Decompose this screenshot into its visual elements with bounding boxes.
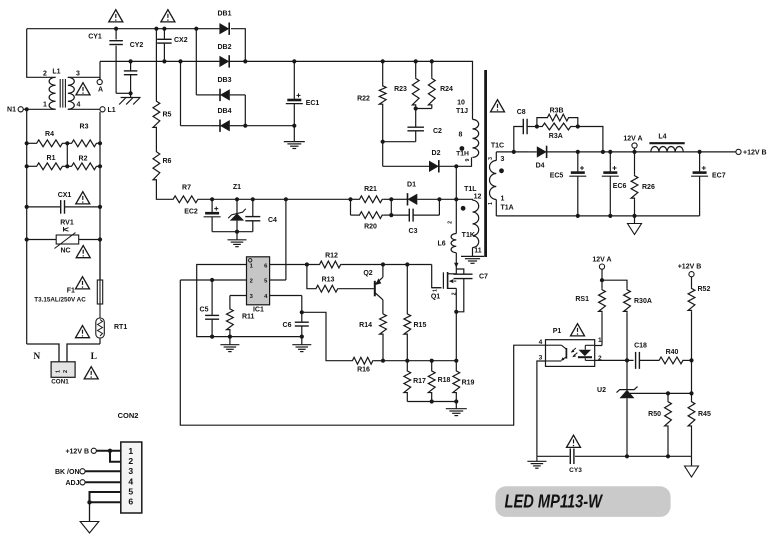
svg-text:N1: N1 (7, 107, 16, 114)
resistor R15 (404, 265, 411, 363)
label pin1 P1 (598, 337, 602, 344)
label pin4 P1 (539, 339, 543, 346)
svg-text:2: 2 (128, 456, 133, 466)
label R1 (47, 155, 56, 162)
label N1 (7, 107, 16, 114)
capacitor CY2 (124, 59, 138, 97)
resistor R5 (153, 27, 160, 129)
label R23 (394, 86, 407, 93)
label R50 (648, 411, 661, 418)
wire pin4 branch to R16 (300, 310, 352, 361)
label T1A (501, 205, 514, 212)
label pin11 (474, 248, 482, 255)
wire pin4 line (270, 296, 302, 323)
svg-text:ADJ: ADJ (65, 480, 79, 487)
svg-text:T3.15AL/250V AC: T3.15AL/250V AC (34, 297, 86, 304)
label R11 (242, 314, 255, 321)
capacitor EC2 (204, 197, 221, 232)
label pin1 sec (501, 195, 505, 202)
label R45 (698, 411, 711, 418)
resistor R13 (315, 285, 374, 292)
svg-text:R23: R23 (394, 86, 407, 93)
wire L1 pin3 to bus2 (68, 61, 100, 77)
diode DB2 (217, 44, 231, 68)
capacitor C5 (205, 278, 219, 339)
svg-text:R52: R52 (698, 286, 711, 293)
capacitor C4 (245, 197, 260, 232)
ic IC1 (247, 257, 270, 305)
svg-text:RT1: RT1 (114, 324, 127, 331)
optocoupler phototransistor (546, 345, 567, 361)
svg-text:4: 4 (77, 102, 81, 109)
wire main line to pin5 (284, 197, 288, 280)
label D1 (407, 182, 416, 189)
resistor R52 (688, 287, 695, 360)
label C5 (200, 307, 209, 314)
svg-text:DB4: DB4 (217, 108, 231, 115)
wire N rail (26, 109, 28, 344)
svg-text:2: 2 (43, 71, 47, 78)
capacitor C3 (391, 197, 441, 221)
wire pin6 line (270, 262, 319, 266)
label CX2 (174, 37, 188, 44)
label Q2 (363, 270, 372, 277)
node +12V B top (736, 149, 767, 156)
label fuse rating (34, 297, 86, 304)
capacitor C7 (454, 269, 473, 314)
label T1K (462, 232, 475, 239)
label pin1 L1 (43, 102, 47, 109)
label CY1 (88, 34, 102, 41)
resistor R23 (412, 59, 419, 106)
svg-text:EC1: EC1 (306, 100, 320, 107)
wire mid junction (66, 143, 68, 166)
svg-text:12V A: 12V A (623, 135, 642, 142)
svg-text:9: 9 (465, 158, 471, 161)
svg-text:DB1: DB1 (217, 11, 231, 18)
label EC7 (712, 172, 726, 179)
svg-text:CY2: CY2 (130, 42, 144, 49)
wire bus2 to DB4 (178, 59, 211, 125)
wire output rail (576, 150, 736, 154)
wire CON2 pin5 (90, 492, 121, 502)
wire IC ground rail (212, 336, 302, 338)
label R30A (634, 298, 652, 305)
label IC1 pin3 (250, 294, 254, 300)
wire D1 node to T1L (439, 198, 456, 200)
svg-text:EC2: EC2 (184, 209, 198, 216)
label CON1 (51, 379, 69, 386)
wire D2 node to T1H (456, 157, 471, 166)
resistor R11 (227, 296, 234, 339)
label R24 (440, 86, 453, 93)
ground below T1K (461, 256, 484, 263)
wire Q1 source down (455, 312, 457, 361)
label CON2 pin3 (128, 466, 133, 476)
svg-text:R26: R26 (642, 184, 655, 191)
svg-text:1: 1 (56, 370, 62, 373)
label RV1 (60, 220, 74, 227)
inductor L1 right winding (68, 77, 75, 109)
svg-text:2: 2 (63, 370, 69, 373)
capacitor EC5 (569, 152, 586, 218)
svg-text:DB3: DB3 (217, 77, 231, 84)
capacitor C2 (381, 106, 424, 144)
capacitor CY3 (570, 449, 574, 465)
resistor R4 (25, 140, 68, 147)
transistor Q2 (375, 262, 385, 313)
svg-text:R21: R21 (364, 186, 377, 193)
label pin1 Q1 (433, 289, 439, 292)
svg-text:R40: R40 (666, 349, 679, 356)
svg-text:EC7: EC7 (712, 172, 726, 179)
optocoupler P1 box (546, 340, 595, 367)
svg-text:CX1: CX1 (58, 192, 72, 199)
diode D2 (383, 150, 459, 173)
label R15 (414, 322, 427, 329)
winding T1L/T1K (454, 197, 479, 247)
wire L rail upper (99, 112, 101, 280)
resistor R2 (65, 163, 102, 170)
svg-text:D2: D2 (432, 150, 441, 157)
capacitor EC7 (691, 152, 708, 216)
phase dot T1H (460, 146, 465, 151)
resistor R3 (65, 140, 102, 147)
svg-text:Z1: Z1 (233, 184, 241, 191)
warning triangle near L1 (76, 83, 90, 95)
diode DB4 (211, 108, 232, 132)
chassis ground below CY2 (119, 98, 141, 105)
inductor L1 left winding (49, 77, 55, 109)
wire rectified bus (to transformer) (230, 61, 473, 119)
wire EC2/Z1/C4 bottom (212, 232, 253, 240)
svg-text:5: 5 (128, 486, 133, 496)
svg-text:R3: R3 (80, 124, 89, 131)
wire pin3 line (230, 295, 247, 297)
svg-text:6: 6 (128, 497, 133, 507)
label L1 (52, 69, 60, 76)
label EC5 (550, 172, 564, 179)
svg-text:Q1: Q1 (431, 294, 440, 301)
wire pin1 loop (197, 265, 247, 337)
resistor R18 (428, 361, 435, 402)
resistor R3B (537, 114, 578, 126)
badge LED MP113-W (495, 486, 670, 517)
warning triangle above CY1 (109, 10, 123, 22)
resistor R22 (379, 59, 386, 166)
label CON2 pin1 (128, 446, 133, 456)
label T1C (491, 142, 504, 149)
resistor R1 (25, 163, 68, 170)
label T1H (456, 151, 469, 158)
svg-text:CX2: CX2 (174, 37, 188, 44)
capacitor C8 (512, 119, 537, 154)
capacitor CX2 (157, 27, 172, 64)
label R5 (163, 112, 172, 119)
resistor R40 (658, 357, 694, 364)
node L1 terminal (68, 107, 116, 114)
node A terminal (97, 77, 103, 93)
label R52 (698, 286, 711, 293)
svg-text:L1: L1 (52, 69, 60, 76)
svg-text:T1C: T1C (491, 142, 504, 149)
wire RS1 top branch (602, 280, 627, 289)
resistor R19 (453, 361, 460, 402)
label pin3 L1 (76, 71, 80, 78)
diode DB1 (217, 11, 231, 35)
thermistor RT1 (96, 318, 105, 344)
label R17 (413, 378, 426, 385)
wire N to CON1 (27, 344, 59, 362)
svg-text:3: 3 (76, 71, 80, 78)
svg-text:R2: R2 (79, 156, 88, 163)
svg-text:10: 10 (457, 100, 465, 107)
capacitor EC6 (602, 152, 619, 218)
svg-text:1: 1 (501, 195, 505, 202)
warning triangle near core (491, 100, 505, 112)
capacitor C18 (636, 352, 658, 369)
svg-text:C18: C18 (634, 342, 647, 349)
label L (91, 352, 97, 362)
svg-text:C6: C6 (283, 322, 292, 329)
label pin2 Q1 (451, 292, 457, 295)
winding T1J/T1H (473, 119, 479, 157)
wire DB1 cathode to bus2 (231, 29, 247, 64)
svg-text:12: 12 (474, 193, 482, 200)
label IC1 pin5 (264, 279, 268, 285)
wire L6 to Q1 drain (454, 253, 458, 269)
wire pin2 line (180, 279, 246, 281)
resistor R24 (416, 59, 436, 108)
label C2 (433, 128, 442, 135)
optocoupler LED (578, 345, 595, 360)
wire P1 pin3 (537, 361, 546, 456)
wire DB3/DB4 anodes join (230, 95, 248, 128)
label pin2 P1 (598, 355, 602, 362)
label pin4 L1 (77, 102, 81, 109)
label R18 (438, 377, 451, 384)
svg-text:R19: R19 (462, 380, 475, 387)
connector CON2 box (121, 442, 142, 513)
wire P1 pin1 (595, 345, 602, 347)
label R19 (462, 380, 475, 387)
label EC6 (613, 183, 627, 190)
svg-text:T1A: T1A (501, 205, 514, 212)
label pin2 L1 (43, 71, 47, 78)
node +12V B CON2 (65, 448, 120, 455)
svg-text:CY1: CY1 (88, 34, 102, 41)
resistor R17 (404, 361, 411, 402)
label R21 (364, 186, 377, 193)
label pin9 (465, 158, 471, 161)
label CON2 pin2 (128, 456, 133, 466)
label L6 (438, 241, 446, 248)
svg-text:F1: F1 (67, 288, 75, 295)
svg-text:R15: R15 (414, 322, 427, 329)
ground below EC1 (284, 142, 305, 149)
label EC2 (184, 209, 198, 216)
ground below R11 (220, 337, 239, 352)
label R14 (359, 322, 372, 329)
diode DB3 (211, 77, 232, 101)
label CON2 pin6 (128, 497, 133, 507)
label pin3 rot (488, 157, 494, 160)
node 12V A top (623, 135, 642, 152)
inductor L4 (649, 143, 684, 152)
label R12 (325, 252, 338, 259)
wire feedback loop (180, 280, 545, 425)
ground below secondary (628, 216, 642, 235)
wire CON2 pin6 (87, 500, 121, 521)
label pin1 rot (488, 202, 494, 205)
wire pin5 line (270, 279, 286, 281)
svg-text:N: N (33, 352, 40, 362)
node +12V B lower (678, 264, 702, 288)
wire D2 node down (455, 166, 457, 199)
svg-text:C3: C3 (409, 228, 418, 235)
svg-text:2: 2 (451, 292, 457, 295)
wire secondary bottom rail (496, 215, 699, 217)
svg-text:T1H: T1H (456, 151, 469, 158)
wire secondary top rail (496, 151, 529, 153)
label C7 (479, 273, 488, 280)
svg-text:R20: R20 (364, 224, 377, 231)
svg-text:8: 8 (459, 131, 463, 138)
svg-text:1: 1 (433, 289, 439, 292)
svg-text:A: A (98, 87, 103, 94)
svg-text:C5: C5 (200, 307, 209, 314)
label C6 (283, 322, 292, 329)
label CY2 (130, 42, 144, 49)
svg-text:L6: L6 (438, 241, 446, 248)
label R13 (322, 277, 335, 284)
optocoupler LED arrows (571, 348, 578, 357)
node BK/ON (55, 469, 121, 476)
ground below Z1 (228, 240, 247, 247)
wire R52 junction down (691, 360, 693, 393)
svg-text:LED MP113-W: LED MP113-W (505, 491, 604, 512)
svg-text:3: 3 (128, 466, 133, 476)
wire R6 to R7 (156, 181, 172, 199)
label IC1 (253, 307, 264, 314)
resistor R30A (624, 289, 631, 361)
diode D1 (399, 193, 440, 205)
svg-text:1: 1 (488, 202, 494, 205)
svg-text:+12V B: +12V B (65, 448, 89, 455)
label CY3 (569, 467, 582, 474)
winding T1C/T1A (490, 152, 497, 216)
label T1J (456, 108, 468, 115)
resistor R50 (665, 393, 672, 458)
wire snubber to rail (578, 127, 605, 154)
svg-text:NC: NC (60, 248, 70, 255)
svg-text:11: 11 (474, 248, 482, 255)
ground below R19 (446, 402, 467, 416)
label EC1 (306, 100, 320, 107)
label U2 (597, 387, 606, 394)
label R7 (182, 185, 191, 192)
svg-text:C8: C8 (517, 109, 526, 116)
warning triangle CX1 (76, 192, 90, 204)
label C8 (517, 109, 526, 116)
connector CON1 (51, 362, 75, 378)
svg-text:R24: R24 (440, 86, 453, 93)
wire mid line (199, 198, 351, 200)
diode D4 (529, 146, 578, 158)
capacitor C6 (295, 322, 309, 339)
label Q1 (431, 294, 440, 301)
label CON2 (118, 411, 139, 420)
label D4 (536, 162, 545, 169)
label T1L (464, 186, 477, 193)
label R20 (364, 224, 377, 231)
svg-text:RS1: RS1 (575, 296, 589, 303)
node 12V A lower (592, 257, 611, 289)
svg-text:R5: R5 (163, 112, 172, 119)
svg-text:R4: R4 (45, 131, 54, 138)
svg-text:1: 1 (598, 337, 602, 344)
warning triangle RT1 (76, 326, 90, 338)
resistor R20 (351, 199, 394, 218)
resistor R14 (380, 313, 387, 363)
resistor R6 (153, 129, 160, 182)
svg-text:Q2: Q2 (363, 270, 372, 277)
label pin8 (459, 131, 463, 138)
wire gate line (383, 262, 441, 287)
resistor R21 (348, 196, 393, 203)
svg-text:3: 3 (501, 156, 505, 163)
svg-text:4: 4 (128, 476, 133, 486)
resistor RS1 (599, 289, 606, 346)
zener Z1 (228, 197, 246, 234)
wire L to CON1 (67, 344, 100, 362)
warning triangle F1 (76, 277, 90, 289)
L1 core (60, 79, 65, 108)
wire tap to L6 (455, 199, 457, 233)
svg-text:C4: C4 (268, 217, 277, 224)
label C18 (634, 342, 647, 349)
node ADJ (65, 480, 120, 487)
resistor R3A (535, 123, 580, 130)
svg-text:1: 1 (43, 102, 47, 109)
label pin3 P1 (539, 355, 543, 362)
label pin2 rot (447, 221, 453, 224)
label R40 (666, 349, 679, 356)
resistor R7 (172, 196, 199, 203)
svg-text:RV1: RV1 (60, 220, 74, 227)
svg-text:R6: R6 (163, 158, 172, 165)
label C3 (409, 228, 418, 235)
svg-text:L: L (91, 352, 97, 362)
label CON2 pin5 (128, 486, 133, 496)
svg-text:D1: D1 (407, 182, 416, 189)
wire P1 pin2 line (595, 358, 634, 362)
wire N1 input (18, 107, 56, 112)
resistor R26 (631, 152, 638, 218)
varistor RV1 (25, 227, 103, 249)
wire R21 to D1 (391, 198, 398, 200)
label R3B (550, 107, 564, 114)
svg-text:1: 1 (128, 446, 133, 456)
label IC1 pin1 (250, 264, 254, 270)
wire AC bus2 (100, 60, 219, 62)
svg-text:R14: R14 (359, 322, 372, 329)
wire left rail to L1 pin2 (27, 29, 56, 78)
label IC1 pin4 (264, 294, 268, 300)
svg-text:DB2: DB2 (217, 44, 231, 51)
svg-text:R18: R18 (438, 377, 451, 384)
svg-text:T1L: T1L (464, 186, 477, 193)
